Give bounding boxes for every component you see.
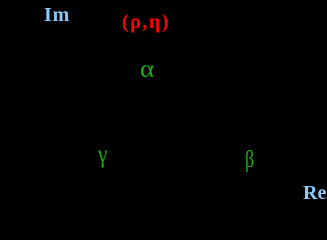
angle gamma bbox=[98, 142, 107, 167]
axis label Im bbox=[44, 5, 70, 25]
axis label Re bbox=[303, 183, 326, 203]
node label (rho,eta) bbox=[122, 12, 170, 32]
angle beta bbox=[245, 148, 254, 173]
angle alpha bbox=[140, 57, 154, 82]
